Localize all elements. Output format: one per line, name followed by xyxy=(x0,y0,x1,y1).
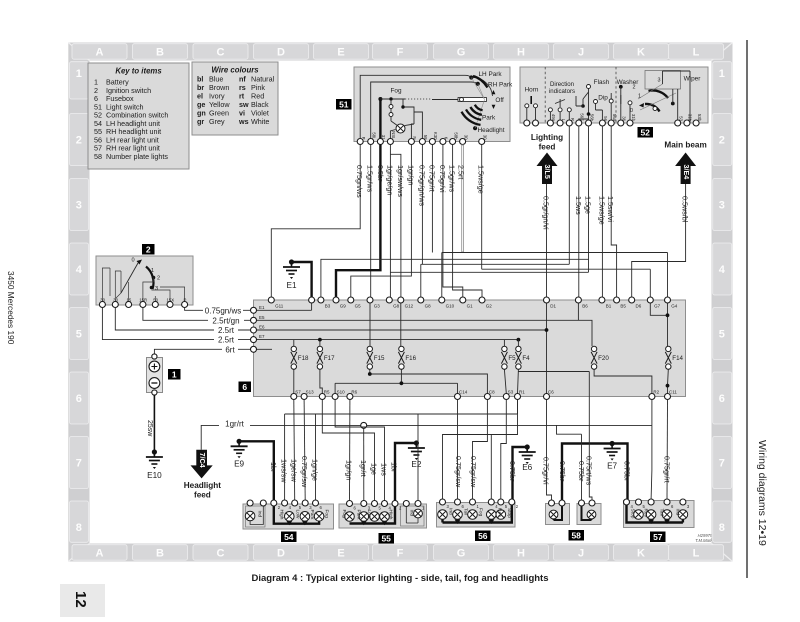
wire 2.5rt U51 feed xyxy=(457,145,466,253)
svg-text:1: 1 xyxy=(76,68,82,80)
svg-text:G11: G11 xyxy=(275,304,284,309)
wire S3 to U56 stop xyxy=(501,400,507,500)
svg-text:Tail: Tail xyxy=(659,509,665,516)
RH rear light unit U57 xyxy=(624,499,695,528)
fusebox internal F5 F4 to S3 R1 xyxy=(504,369,518,393)
svg-text:G8: G8 xyxy=(393,304,400,309)
svg-text:57: 57 xyxy=(653,532,663,542)
svg-text:51: 51 xyxy=(339,99,349,109)
svg-text:B: B xyxy=(156,46,164,58)
label 57 xyxy=(650,532,666,543)
wire 6rt battery to fusebox xyxy=(154,345,250,354)
svg-text:0.75gn/ws: 0.75gn/ws xyxy=(355,165,364,198)
svg-text:Wiring diagrams 12•19: Wiring diagrams 12•19 xyxy=(756,440,768,546)
svg-text:1gr/sw/ws: 1gr/sw/ws xyxy=(396,165,405,197)
label 1 xyxy=(168,369,181,380)
svg-text:feed: feed xyxy=(194,491,211,500)
svg-text:F14: F14 xyxy=(672,355,683,362)
wire 0.75br to U58 xyxy=(577,434,586,500)
svg-text:Wire colours: Wire colours xyxy=(211,66,259,75)
wire 1ge R5 to U55 low xyxy=(322,400,378,502)
svg-text:1ge: 1ge xyxy=(370,463,379,475)
svg-text:F: F xyxy=(397,46,404,58)
svg-text:1.5gr/ws: 1.5gr/ws xyxy=(366,165,375,193)
svg-text:1.5ws: 1.5ws xyxy=(574,196,583,215)
label 2 xyxy=(142,244,155,255)
wire 0.75gr/vi U51 to G1 xyxy=(438,145,463,298)
caption xyxy=(251,573,548,584)
U52 direction indicator section xyxy=(548,81,575,123)
wire 1.5sw/vi U52 to B5 xyxy=(606,126,616,297)
svg-text:E9: E9 xyxy=(234,459,244,468)
fuse F17 xyxy=(317,346,335,369)
svg-text:7: 7 xyxy=(76,458,82,470)
svg-text:Ind: Ind xyxy=(257,511,263,518)
bus wire U52 to G8 xyxy=(390,259,588,272)
fusebox internal F16 branch xyxy=(400,369,402,383)
svg-text:58: 58 xyxy=(94,152,102,161)
svg-text:1ws/sw: 1ws/sw xyxy=(280,459,289,483)
svg-text:8: 8 xyxy=(719,522,725,534)
RH headlight unit U55 xyxy=(339,501,427,529)
wire 0.5ws/bl main beam to D6 xyxy=(632,184,690,297)
svg-text:1ge/sw: 1ge/sw xyxy=(290,459,299,483)
svg-text:Fog: Fog xyxy=(390,88,401,95)
wire R2 junction to U57 rev xyxy=(650,425,653,499)
wire 1gn/ge bus to U54 fog xyxy=(311,414,320,500)
svg-text:Dip: Dip xyxy=(598,95,608,102)
bus wire to G7 xyxy=(482,269,651,297)
svg-text:1: 1 xyxy=(638,94,641,100)
svg-text:S10: S10 xyxy=(337,390,346,395)
svg-text:1.5ws/ge: 1.5ws/ge xyxy=(477,165,486,194)
svg-text:Ind: Ind xyxy=(674,509,680,516)
svg-text:R2: R2 xyxy=(653,390,659,395)
fusebox internal bus E7 row to F17 F18 xyxy=(254,340,519,346)
fusebox left terminals E1 E5 E6 E7 xyxy=(251,305,266,353)
svg-text:Number plate lights: Number plate lights xyxy=(106,152,168,161)
wire branch to U58 feeds xyxy=(557,425,582,434)
U52 washer contacts xyxy=(609,79,639,123)
svg-text:LH Park: LH Park xyxy=(479,71,503,78)
wire 0.75gr/gn/ws U51 xyxy=(417,145,426,265)
svg-text:E5: E5 xyxy=(259,315,265,320)
wire 0.5gr/gn/vi lighting feed to D1 xyxy=(542,184,551,297)
svg-text:C6: C6 xyxy=(548,390,554,395)
svg-text:3/L5: 3/L5 xyxy=(543,165,552,179)
svg-text:feed: feed xyxy=(539,143,556,152)
fusebox internal bus E1 row xyxy=(254,300,312,310)
label 51 xyxy=(336,99,352,110)
svg-text:1.5sw/vi: 1.5sw/vi xyxy=(606,196,615,222)
svg-text:Wiper: Wiper xyxy=(684,76,702,83)
wire 0.75gr/vi C6 to U58 xyxy=(542,400,552,501)
light switch U51 box xyxy=(354,67,510,142)
svg-text:S13: S13 xyxy=(306,390,315,395)
svg-text:Direction: Direction xyxy=(550,81,574,88)
grid reference frame xyxy=(68,43,732,562)
wire colours legend box xyxy=(192,62,278,135)
svg-text:G8: G8 xyxy=(425,304,432,309)
wire 0.75rt/ws to U58 xyxy=(584,372,593,501)
svg-text:Washer: Washer xyxy=(617,79,640,86)
svg-text:E1: E1 xyxy=(286,281,296,290)
svg-text:6rt: 6rt xyxy=(225,345,235,354)
fusebox internal F17 to R5 xyxy=(320,369,322,393)
wire 0.75br E7 to U57 (thick) xyxy=(612,444,632,500)
fusebox internal D1 column xyxy=(546,300,548,394)
fusebox internal G3 to F15 xyxy=(369,300,371,346)
label 56 xyxy=(475,531,491,542)
svg-text:5: 5 xyxy=(719,329,725,341)
svg-text:High: High xyxy=(279,510,285,520)
svg-text:G12: G12 xyxy=(405,304,414,309)
svg-text:H: H xyxy=(517,46,525,58)
svg-text:F: F xyxy=(397,547,404,559)
svg-text:Headlight: Headlight xyxy=(184,481,222,490)
wire 1gr/gn U51 to G5 xyxy=(351,145,416,298)
svg-text:4: 4 xyxy=(76,264,83,276)
svg-text:D: D xyxy=(277,547,285,559)
svg-text:F5: F5 xyxy=(508,355,516,362)
svg-text:G10: G10 xyxy=(446,304,455,309)
fuse F16 xyxy=(398,346,416,369)
svg-text:0.5ws/bl: 0.5ws/bl xyxy=(681,196,690,223)
number plate lights U58 xyxy=(546,500,602,525)
svg-text:55: 55 xyxy=(381,533,391,543)
svg-text:Fog: Fog xyxy=(341,510,347,519)
U2 terminals xyxy=(99,298,187,308)
svg-text:Key to items: Key to items xyxy=(115,67,162,76)
svg-text:gr: gr xyxy=(197,117,204,126)
fusebox U6 box xyxy=(254,300,686,397)
fusebox internal F14 to C11 xyxy=(667,369,670,393)
svg-text:6: 6 xyxy=(242,382,247,392)
svg-text:A: A xyxy=(96,547,104,559)
fusebox internal S10 to C14 bus xyxy=(335,383,457,393)
wire 1.5ws/ge U52 to B1 xyxy=(597,126,606,297)
svg-text:8: 8 xyxy=(76,522,82,534)
svg-text:E2: E2 xyxy=(411,460,421,469)
headlight feed arrow 7/C4 xyxy=(184,450,222,500)
svg-text:A: A xyxy=(96,46,104,58)
svg-text:B5: B5 xyxy=(620,304,626,309)
svg-text:G9: G9 xyxy=(340,304,347,309)
label 55 xyxy=(379,533,395,544)
svg-text:0.5br: 0.5br xyxy=(376,165,385,182)
fuse F20 xyxy=(591,346,609,369)
key to items legend box xyxy=(88,63,189,169)
svg-text:L: L xyxy=(693,46,700,58)
svg-text:1br: 1br xyxy=(390,462,399,473)
svg-text:0.75gr/sw: 0.75gr/sw xyxy=(454,456,463,488)
fusebox internal tie to number plate feed xyxy=(518,371,589,373)
svg-text:1br: 1br xyxy=(269,462,278,473)
svg-text:1: 1 xyxy=(172,369,177,379)
svg-text:0.75gr/rt: 0.75gr/rt xyxy=(427,165,436,192)
wire 1gr/rt headlight feed xyxy=(201,419,652,450)
svg-text:1gr/rt: 1gr/rt xyxy=(359,460,368,477)
svg-text:2.5rt: 2.5rt xyxy=(457,165,466,179)
combination switch U52 box xyxy=(520,67,708,123)
fusebox internal G12 to F16 xyxy=(400,300,402,346)
svg-text:Lighting: Lighting xyxy=(531,133,563,142)
svg-text:R1: R1 xyxy=(519,390,525,395)
svg-text:6: 6 xyxy=(719,393,725,405)
svg-text:High: High xyxy=(388,510,394,520)
U2 switch mechanism xyxy=(102,258,184,303)
svg-text:B6: B6 xyxy=(582,304,588,309)
bus wire below fusebox xyxy=(285,400,518,501)
fusebox internal 6rt stub xyxy=(254,348,273,350)
svg-text:Fog: Fog xyxy=(323,510,329,519)
svg-text:E6: E6 xyxy=(522,463,532,472)
wire 0.75gr/sw C14 to U56 tail xyxy=(454,400,463,500)
svg-text:0.75br: 0.75br xyxy=(508,461,517,482)
svg-text:1.5ge: 1.5ge xyxy=(584,196,593,214)
wire 1ge/sw S7 to U54 xyxy=(290,400,299,501)
svg-text:1.5gr/ws: 1.5gr/ws xyxy=(448,165,457,193)
svg-text:K: K xyxy=(637,46,645,58)
fusebox internal F18 to S7 xyxy=(293,369,295,393)
svg-text:2.5rt: 2.5rt xyxy=(218,326,235,335)
wire E1 ground to fusebox (thick) xyxy=(292,262,312,297)
wire 0.5br U51-31 to G9 (thick ground) xyxy=(336,145,385,298)
svg-text:1gr/gn: 1gr/gn xyxy=(345,460,354,480)
svg-text:R5: R5 xyxy=(324,390,330,395)
svg-text:J: J xyxy=(578,547,584,559)
svg-text:Fog: Fog xyxy=(478,508,484,517)
fusebox bottom terminals xyxy=(291,390,678,400)
svg-text:3/E4: 3/E4 xyxy=(682,165,691,180)
left margin rotated book title xyxy=(6,271,16,345)
U52 wiper switch graphic xyxy=(628,71,701,124)
svg-text:2: 2 xyxy=(719,135,725,147)
svg-text:Main beam: Main beam xyxy=(664,141,706,150)
svg-text:J: J xyxy=(578,46,584,58)
LH headlight unit U54 xyxy=(243,500,334,529)
wire 2.5rt U2-30 to E6 xyxy=(115,308,250,336)
fusebox internal G7 to F14 column xyxy=(650,300,667,346)
wire 25sw battery to E10 xyxy=(146,395,154,450)
wire U55 ind to bus xyxy=(417,414,419,501)
svg-text:0.75gr/vi: 0.75gr/vi xyxy=(542,457,551,485)
svg-text:2: 2 xyxy=(146,244,151,254)
U52 terminals xyxy=(524,113,702,126)
svg-text:3450 Mercedes 190: 3450 Mercedes 190 xyxy=(6,271,16,345)
svg-text:S3: S3 xyxy=(508,390,514,395)
svg-text:E7: E7 xyxy=(607,462,617,471)
svg-text:58: 58 xyxy=(571,530,581,540)
svg-text:Headlight: Headlight xyxy=(478,127,505,134)
U51 terminals xyxy=(357,131,487,144)
svg-text:Low: Low xyxy=(366,510,372,519)
svg-text:Park: Park xyxy=(356,510,362,520)
wire 0.75gn/ws U51-P to G11 xyxy=(271,145,364,298)
svg-text:G4: G4 xyxy=(671,304,678,309)
fusebox internal F4 column xyxy=(517,340,519,346)
svg-text:Off: Off xyxy=(495,97,504,104)
svg-text:Low: Low xyxy=(295,510,301,519)
svg-text:D1: D1 xyxy=(550,304,556,309)
svg-text:12: 12 xyxy=(72,591,89,608)
svg-text:G7: G7 xyxy=(654,304,661,309)
wire 1gr/ge/gn U51 to G8 xyxy=(385,145,394,298)
label 52 xyxy=(638,127,654,138)
svg-text:F20: F20 xyxy=(598,355,609,362)
svg-text:Ind: Ind xyxy=(448,508,454,515)
svg-text:B3: B3 xyxy=(325,304,331,309)
svg-text:K: K xyxy=(637,547,645,559)
svg-text:G1: G1 xyxy=(467,304,474,309)
U52 horn section xyxy=(525,87,539,124)
svg-text:RH Park: RH Park xyxy=(488,81,513,88)
svg-text:Ind: Ind xyxy=(409,510,415,517)
svg-text:C14: C14 xyxy=(459,390,468,395)
wire 0.75gr/sw S13 to U54 xyxy=(300,400,309,501)
svg-text:0.5gr/gn/vi: 0.5gr/gn/vi xyxy=(542,196,551,230)
svg-text:1gr/ge/gn: 1gr/ge/gn xyxy=(385,165,394,195)
svg-text:F18: F18 xyxy=(298,355,309,362)
svg-text:52: 52 xyxy=(640,127,650,137)
battery U1 xyxy=(147,354,163,395)
svg-text:Park: Park xyxy=(309,510,315,520)
label 54 xyxy=(281,532,297,543)
wire 0.75gr/rt U51 xyxy=(427,145,436,253)
svg-text:0: 0 xyxy=(131,258,134,264)
svg-text:D: D xyxy=(277,46,285,58)
svg-text:indicators: indicators xyxy=(549,88,575,95)
svg-text:G3: G3 xyxy=(374,304,381,309)
svg-text:C11: C11 xyxy=(669,390,677,395)
svg-text:0.75gn/ws: 0.75gn/ws xyxy=(205,306,241,315)
svg-text:C8: C8 xyxy=(489,390,495,395)
ground E9 xyxy=(231,439,248,469)
svg-text:1gr/rt: 1gr/rt xyxy=(225,420,244,429)
svg-text:B1: B1 xyxy=(606,304,612,309)
wire 1ws/sw bus to U54 xyxy=(280,459,289,483)
svg-text:2.5rt: 2.5rt xyxy=(218,336,235,345)
fuse F5 xyxy=(501,346,516,369)
bottom-left chapter tab 12 xyxy=(60,584,105,617)
fuse F14 xyxy=(665,346,683,369)
svg-text:F15: F15 xyxy=(374,355,385,362)
svg-text:D6: D6 xyxy=(636,304,642,309)
bus wire to G8b and U52 xyxy=(421,264,570,297)
right margin rotated page header Wiring diagrams 12-19 xyxy=(756,440,768,546)
svg-text:3: 3 xyxy=(76,200,82,212)
svg-text:E1: E1 xyxy=(259,305,265,310)
wire 0.75br E7 to U58 (thick) xyxy=(558,444,612,501)
ground E7 xyxy=(604,441,621,471)
wire 1.5ws U52 to B6 xyxy=(574,126,583,297)
wire 0.75gn/ws U2-P to E1 xyxy=(185,306,251,315)
svg-text:G: G xyxy=(457,547,466,559)
svg-text:3: 3 xyxy=(719,200,725,212)
svg-text:1: 1 xyxy=(151,268,154,274)
svg-text:0.75gr/vi: 0.75gr/vi xyxy=(438,165,447,193)
ground E1 xyxy=(283,259,300,290)
wire 1.5ge U52 to B3 xyxy=(321,126,593,297)
wire 1br E2 to U55 (thick) xyxy=(390,443,417,501)
wire 1br E9 to U54 (thick) xyxy=(239,441,278,500)
fusebox internal bus E6 row to D1 column xyxy=(254,329,547,331)
wire 1gr/rt node to U55 park xyxy=(359,428,368,501)
U52 flash and dip contacts xyxy=(576,79,610,123)
wire 0.75gr/rt C11 to U57 xyxy=(662,400,671,500)
svg-text:Tail: Tail xyxy=(463,508,469,515)
wire 2.5rt/gn U2-15R to E5 xyxy=(143,308,251,326)
label 6 xyxy=(239,382,252,393)
svg-text:1gr/gn: 1gr/gn xyxy=(406,165,415,185)
svg-text:56: 56 xyxy=(478,531,488,541)
svg-text:Horn: Horn xyxy=(525,87,539,94)
svg-text:2: 2 xyxy=(633,85,636,91)
svg-text:1ws: 1ws xyxy=(380,463,389,476)
fuse F18 xyxy=(291,346,309,369)
svg-text:7: 7 xyxy=(719,458,725,470)
U51 rotary switch graphic xyxy=(360,71,513,138)
right margin vertical rule xyxy=(746,40,748,578)
svg-text:3: 3 xyxy=(155,286,158,292)
svg-text:2: 2 xyxy=(76,135,82,147)
svg-text:E6: E6 xyxy=(259,325,265,330)
svg-text:ws: ws xyxy=(238,117,249,126)
fusebox top terminals xyxy=(268,297,678,309)
svg-text:6: 6 xyxy=(76,393,82,405)
svg-text:0.75rt/ws: 0.75rt/ws xyxy=(584,456,593,486)
svg-text:54: 54 xyxy=(284,532,294,542)
svg-text:G5: G5 xyxy=(355,304,362,309)
ground E6 xyxy=(519,444,536,472)
svg-text:0.75gr/sw: 0.75gr/sw xyxy=(300,456,309,488)
svg-text:L: L xyxy=(693,547,700,559)
svg-text:E7: E7 xyxy=(259,334,265,339)
svg-text:Rev: Rev xyxy=(643,509,649,518)
svg-text:25sw: 25sw xyxy=(146,420,153,437)
svg-text:S7: S7 xyxy=(295,390,301,395)
svg-text:2.5rt/gn: 2.5rt/gn xyxy=(212,316,239,325)
wire R2 to junction xyxy=(651,400,653,426)
svg-text:1.5ws/ge: 1.5ws/ge xyxy=(597,196,606,225)
svg-text:E: E xyxy=(337,46,344,58)
svg-text:1: 1 xyxy=(719,68,725,80)
wire 1.5gr/ws U51 to G3 xyxy=(366,145,375,298)
svg-text:5: 5 xyxy=(76,329,82,341)
svg-text:R6: R6 xyxy=(351,390,357,395)
wire 1gr/sw/ws branch to G12 xyxy=(390,154,405,297)
svg-text:H: H xyxy=(517,547,525,559)
svg-text:C: C xyxy=(217,547,225,559)
wire 1gr/gn R6 to U55 xyxy=(345,400,354,502)
svg-text:G2: G2 xyxy=(486,304,493,309)
ignition switch U2 box xyxy=(96,256,193,305)
svg-text:Park: Park xyxy=(482,115,496,122)
wire 1.5ws/ge U51 xyxy=(477,145,486,270)
fusebox internal F20 to R2 xyxy=(594,369,652,393)
svg-text:Stop: Stop xyxy=(506,508,512,518)
lighting feed arrow 3/L5 xyxy=(531,133,563,184)
svg-text:Grey: Grey xyxy=(209,117,225,126)
U51 fog switch cluster xyxy=(378,88,432,142)
svg-text:4: 4 xyxy=(719,264,726,276)
fuse F4 xyxy=(515,346,530,369)
wire 0.75br E6 to U56 (thick) xyxy=(508,447,527,500)
wire 0.75gr/sw C8 to U56 fog xyxy=(469,400,488,500)
svg-text:7/C4: 7/C4 xyxy=(198,453,207,468)
svg-text:3: 3 xyxy=(658,78,661,84)
svg-text:2: 2 xyxy=(157,276,160,282)
